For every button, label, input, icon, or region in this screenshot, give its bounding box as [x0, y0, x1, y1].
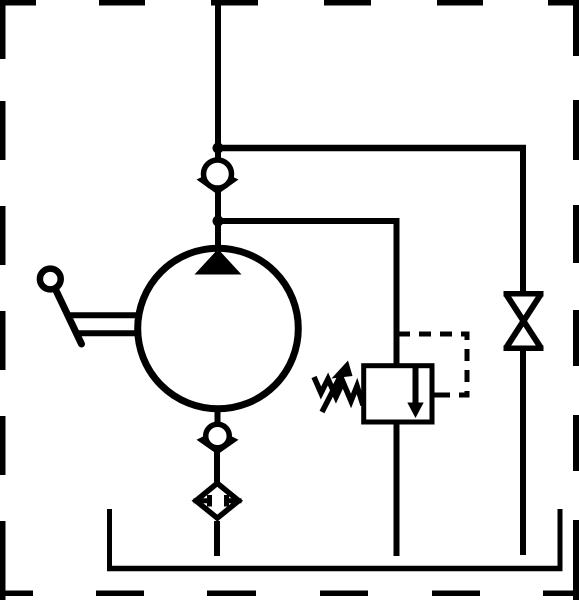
wire: branch to shutoff valve, vertical drop [520, 145, 526, 295]
enclosure dashed border top [0, 0, 579, 6]
wire: filter to tank [214, 521, 220, 556]
wire: branch to shutoff valve, horizontal run [218, 145, 526, 152]
check valve CV1 seat [197, 177, 239, 195]
tank T1 right wall [558, 509, 563, 570]
wire: branch to relief valve, horizontal run [218, 218, 400, 224]
filter F1 dashed element right segment [225, 498, 242, 503]
check valve CV2 seat [197, 437, 239, 455]
check valve CV1 ball [204, 160, 232, 188]
wire: pump outlet to check valve CV2 [215, 408, 221, 424]
tank T1 left wall [107, 509, 112, 570]
shutoff valve V1 lower triangle sides [506, 294, 541, 348]
wire: relief valve drain to tank [394, 422, 400, 556]
relief valve RV1 spring [314, 377, 364, 402]
lever knob [40, 269, 61, 290]
filter F1 dashed element left segment [194, 498, 211, 503]
shutoff valve V1 upper triangle sides [506, 294, 541, 348]
wire: branch to relief valve, vertical drop to valve inlet [394, 218, 400, 368]
filter F1 diamond [196, 483, 239, 518]
tank T1 bottom [107, 566, 563, 572]
wire: CV1 to pump inlet [215, 190, 221, 256]
enclosure dashed border left [0, 0, 6, 600]
hand pump P1 body circle [138, 248, 299, 409]
enclosure dashed border bottom [0, 591, 579, 597]
node: junction dot at relief-valve branch tee [213, 216, 224, 227]
lever fork upper link [67, 312, 139, 318]
check valve CV2 ball [206, 424, 230, 448]
filter F1 dashed element left tick [207, 495, 212, 507]
lever arm diagonal [56, 290, 82, 344]
shutoff valve V1 top bar [504, 291, 544, 297]
relief valve RV1 body [364, 366, 432, 422]
relief valve RV1 internal flow arrowhead [407, 403, 423, 419]
hand pump P1 flow-direction triangle [195, 249, 242, 275]
wire: CV2 to filter [214, 452, 220, 486]
node: junction dot at supply/right-branch tee [213, 143, 224, 154]
relief valve RV1 internal flow arrow shaft [413, 368, 419, 405]
filter F1 dashed element right tick [224, 495, 229, 507]
wire: shutoff valve to tank [520, 348, 526, 555]
pilot line dashed loop [398, 334, 467, 395]
lever fork lower link [77, 330, 138, 336]
relief valve RV1 adjustment arrowhead [332, 361, 353, 379]
pilot line solid stub at relief valve [432, 393, 446, 398]
shutoff valve V1 bottom bar [504, 345, 544, 351]
enclosure dashed border right [573, 0, 579, 600]
wire: main supply vertical from top border to check valve CV1 [215, 0, 221, 162]
relief valve RV1 adjustment arrow shaft [322, 373, 342, 412]
